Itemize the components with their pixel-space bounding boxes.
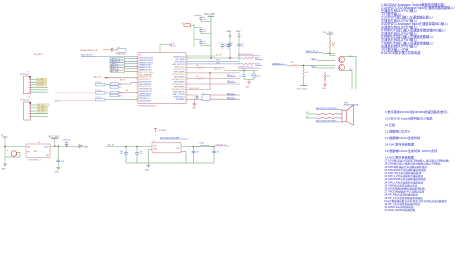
svg-text:R9: R9 <box>118 47 120 49</box>
svg-text:U3: U3 <box>153 141 155 143</box>
svg-text:C18: C18 <box>120 151 123 153</box>
text block A (pin descriptions 1-8) <box>381 2 454 55</box>
wire mic amp output <box>181 146 215 147</box>
svg-text:11 正极: 11 正极 <box>385 122 395 127</box>
svg-text:P2: P2 <box>28 97 30 99</box>
net label LINEOUT_L1 (U1 left) <box>110 58 138 61</box>
svg-text:104: 104 <box>203 43 206 45</box>
svg-text:MIC_IN: MIC_IN <box>108 144 115 146</box>
regulator U2 LP5907 box <box>26 142 50 158</box>
net label AUD_SDIN (U1 left) <box>110 70 138 73</box>
ground (supply input) <box>2 164 8 170</box>
svg-text:104: 104 <box>241 45 244 47</box>
power flag GND (right arrow) <box>79 145 88 149</box>
transistor Q2 S8050 (lower) <box>338 64 352 71</box>
svg-text:SD_MCU: SD_MCU <box>34 54 43 56</box>
capacitor C22 10uF <box>63 140 70 147</box>
resistor R12 and R13 pair <box>110 89 138 97</box>
svg-text:10K: 10K <box>332 45 335 47</box>
capacitor C8 above U1 <box>160 44 175 53</box>
inductor L1 2.2uH <box>196 142 214 146</box>
svg-text:C19: C19 <box>140 151 143 153</box>
svg-text:ESP8266EX-AUDIO: ESP8266EX-AUDIO <box>138 105 157 108</box>
svg-text:R16: R16 <box>291 62 294 64</box>
transistor Q1 S8050 (upper) <box>338 56 352 62</box>
capacitor C24 electrolytic <box>252 70 260 79</box>
capacitor C6 104 (decoupling bank) <box>194 27 211 33</box>
svg-text:1uF: 1uF <box>216 151 219 153</box>
svg-text:VCC_3V3: VCC_3V3 <box>297 88 308 90</box>
label AMP-OUTPUT- (below) <box>316 119 343 122</box>
svg-text:Y1: Y1 <box>203 93 205 95</box>
ground (below crystal) <box>192 99 196 109</box>
svg-text:SD_CLK: SD_CLK <box>38 105 45 107</box>
svg-text:GND: GND <box>227 31 232 33</box>
svg-text:J1: J1 <box>7 150 9 152</box>
capacitor C16 104 <box>225 38 232 59</box>
svg-text:C24: C24 <box>257 76 260 78</box>
svg-text:GND: GND <box>55 172 60 174</box>
svg-text:10 DBVDD Supply数字接口I/O电源: 10 DBVDD Supply数字接口I/O电源 <box>385 116 432 121</box>
wire amp output right <box>343 56 356 89</box>
svg-text:8 DCVDD数字核心供电电源: 8 DCVDD数字核心供电电源 <box>381 50 421 55</box>
wire SPK- with resistor R19 <box>306 116 341 119</box>
svg-text:R13: R13 <box>119 95 122 97</box>
svg-text:12 数据端C/芯片M: 12 数据端C/芯片M <box>385 129 411 134</box>
svg-text:LP5907MFX-3.3: LP5907MFX-3.3 <box>28 160 41 162</box>
power flag VBAT (red, top-left) <box>182 23 195 27</box>
capacitor C23 104 <box>56 146 64 167</box>
connector J1 power jack <box>7 150 21 156</box>
ground flag GND (right of pair) <box>236 31 241 38</box>
net label LINEL1_R1 <box>306 51 336 54</box>
svg-text:U1: U1 <box>139 54 141 56</box>
svg-text:104: 104 <box>173 46 176 48</box>
svg-text:R11: R11 <box>119 87 122 89</box>
ground (C23) <box>55 167 61 173</box>
net label ADMIC_N1 (U1 left) <box>110 68 138 71</box>
svg-text:R1-AUD 10K: R1-AUD 10K <box>116 53 127 56</box>
svg-text:14 DAC数字音频数据: 14 DAC数字音频数据 <box>385 141 414 146</box>
crystal Y1 with caps <box>186 93 240 100</box>
svg-text:AUD_P: AUD_P <box>120 79 125 82</box>
svg-text:C3_B: C3_B <box>216 62 220 64</box>
wire EXT_R row with resistor R6 12K <box>186 65 233 71</box>
ground (GPIO14 filter) <box>246 82 251 89</box>
power flag VCC_3V3 (amp) <box>323 32 334 40</box>
svg-text:MTSW-1-05: MTSW-1-05 <box>20 99 29 101</box>
net labels SD_DAT2/SD_DAT3/SD_CMD (P1) <box>37 78 47 87</box>
capacitor C21 1uF <box>212 146 219 163</box>
wire decoupling left rail <box>193 24 195 47</box>
svg-text:OUT: OUT <box>176 148 179 150</box>
mcu U1 left pin names <box>139 58 154 103</box>
svg-text:C13: C13 <box>218 43 221 45</box>
capacitor C17 (GPIO14 filter) <box>233 70 258 80</box>
svg-text:15 数据端C/ADC生成时钟: GPIO1支持: 15 数据端C/ADC生成时钟: GPIO1支持 <box>385 148 437 153</box>
svg-text:U0RXD/DVDD: U0RXD/DVDD <box>139 100 151 102</box>
label SPK1 speaker <box>344 102 359 106</box>
svg-text:MTSW-1-05: MTSW-1-05 <box>20 74 29 76</box>
resistor R10 and R11 pair <box>110 79 138 89</box>
power flag MICBIAS (red) <box>154 129 167 132</box>
ground (amp) <box>322 85 327 91</box>
mcu U1 ESP8266EX box <box>138 53 186 104</box>
capacitor C7 104 (decoupling bank) <box>194 39 211 45</box>
text block C (pin descriptions 17-32) <box>385 159 451 213</box>
capacitor C13 C14 (above right of U1) <box>218 42 233 49</box>
wire supply input <box>4 146 26 164</box>
red label M-AUD (faint) <box>80 49 99 52</box>
svg-text:104: 104 <box>203 31 206 33</box>
svg-text:L1 [R]: L1 [R] <box>200 142 205 144</box>
svg-text:SD_CMD: SD_CMD <box>37 85 44 87</box>
wire GPIO12 row with resistor R7 <box>186 76 240 79</box>
capacitor C11 104 (left of U1) <box>95 90 110 94</box>
svg-text:9 数字接地DCVDD和DRVDD的返回路径(数字),: 9 数字接地DCVDD和DRVDD的返回路径(数字), <box>385 109 449 114</box>
svg-text:MIC1BIAS: MIC1BIAS <box>159 129 168 132</box>
net label SPK_R1 <box>227 93 236 95</box>
capacitor C5 104 (decoupling bank) <box>194 15 211 21</box>
connector P2 MTSW-1-05 <box>20 97 48 120</box>
svg-text:C14: C14 <box>230 43 233 45</box>
power flag 5V input <box>1 135 7 147</box>
label AMP-OUTPUT+ (above) <box>316 107 343 110</box>
text block B (pin descriptions 9-16) <box>385 109 449 159</box>
svg-text:P1: P1 <box>28 72 30 74</box>
svg-text:GND: GND <box>236 31 241 33</box>
svg-text:GND: GND <box>145 169 150 171</box>
svg-text:GND: GND <box>83 146 88 148</box>
capacitor C10 104 (left of U1) <box>95 82 110 86</box>
svg-text:VOUT: VOUT <box>44 147 49 149</box>
speaker SP1 <box>340 105 354 125</box>
label BLM-MIC/GPIO14-C (upper) <box>238 54 261 56</box>
svg-text:GND: GND <box>322 88 326 90</box>
wire GPIO14 row + junction <box>186 72 240 89</box>
svg-text:104: 104 <box>120 153 123 155</box>
power flag VCC_3V3 (supply out) <box>49 136 60 147</box>
mcu U1 pin stubs <box>136 57 188 101</box>
svg-text:16 ADC数字音频数据: 16 ADC数字音频数据 <box>385 154 414 159</box>
wire ground rail (mic section) <box>126 162 214 164</box>
net label LINEOUT_R1 (U1 left) <box>110 60 138 63</box>
svg-text:R14: R14 <box>332 43 335 45</box>
svg-text:AUD_LRCLK: AUD_LRCLK <box>190 87 201 90</box>
svg-text:C23: C23 <box>61 161 64 163</box>
wire SPK+ with resistor R18 <box>306 112 341 115</box>
red label MIC_GD + wire <box>94 76 138 78</box>
net label SPK_L1 <box>227 75 236 77</box>
label LP5907MFX-3.3 (under U2) <box>28 160 41 162</box>
label BLM-MIC/GPIO14-D (lower) <box>238 67 261 69</box>
net label LINEIN_L1 (U1 left) <box>110 63 138 66</box>
svg-text:1uF: 1uF <box>196 151 199 153</box>
svg-text:5V: 5V <box>1 135 4 137</box>
power flag VCC_3V3 (bias bottom) <box>297 78 308 91</box>
svg-text:13 数据端C/DAC生成时钟: 13 数据端C/DAC生成时钟 <box>385 135 420 140</box>
svg-text:SPK1: SPK1 <box>344 102 348 104</box>
wire VOUT <box>50 146 79 147</box>
net label LINEOUT_L1 + resistor R16 <box>272 62 335 77</box>
svg-text:C3_A: C3_A <box>216 59 220 62</box>
wire CH_PD row <box>186 59 238 62</box>
svg-text:GND: GND <box>246 87 250 89</box>
capacitor C9 with reset box <box>103 47 126 56</box>
svg-text:R7: R7 <box>197 76 199 78</box>
svg-text:R17: R17 <box>306 72 309 74</box>
resistor R15 (amp emitter) <box>324 72 330 85</box>
svg-text:1uF: 1uF <box>140 153 143 155</box>
mic amp U3 box <box>152 136 189 152</box>
svg-text:M1-AUD MCLK 12K: M1-AUD MCLK 12K <box>80 49 99 52</box>
connector P1 MTSW-1-05 <box>20 72 48 94</box>
capacitor C12 104 (left of U1) <box>95 97 138 101</box>
svg-text:VCC_3V3: VCC_3V3 <box>204 13 215 16</box>
svg-text:104: 104 <box>203 19 206 21</box>
svg-text:GND: GND <box>2 168 7 170</box>
capacitor C15 104 <box>237 38 243 64</box>
svg-text:C15: C15 <box>241 43 244 45</box>
svg-text:MT_D2: MT_D2 <box>55 101 60 103</box>
svg-text:GND/EPAD: GND/EPAD <box>175 98 185 101</box>
wire GPIO13 row <box>186 83 240 85</box>
svg-text:GND: GND <box>192 108 196 110</box>
svg-text:U2: U2 <box>38 142 40 144</box>
svg-text:A2: A2 <box>126 89 128 92</box>
wire NR_4 row with resistor R4 <box>186 57 263 60</box>
capacitor C19 1uF <box>135 146 142 163</box>
svg-text:AUD-W: AUD-W <box>216 53 222 56</box>
capacitor C20 1uF <box>192 146 199 163</box>
net label SPK_R2 <box>227 98 236 100</box>
net label LINEOUT_L1 (mic out) <box>216 144 230 146</box>
net label AUD_MCLK <box>81 54 138 57</box>
svg-text:C22 10uF: C22 10uF <box>63 140 70 142</box>
net label NR_3 <box>312 66 336 68</box>
label ESP8266EX-AUDIO (under U1) <box>138 105 157 108</box>
ground flag GND (left of pair) <box>227 31 232 38</box>
capacitor C18 104 <box>120 146 128 163</box>
svg-text:R15: R15 <box>327 76 330 78</box>
svg-text:R6: R6 <box>197 65 199 67</box>
net label SPK_L2 <box>227 81 236 83</box>
net label ADMIC_P1 (U1 left) <box>110 65 138 68</box>
net labels SD_CLK/SD_DAT0/SD_DAT1 (P2) <box>37 104 49 113</box>
net label AUD_LRCLK row <box>186 87 210 90</box>
wire filter ground rail <box>244 79 254 81</box>
wire SP_B row with resistor R5 <box>186 62 263 65</box>
svg-text:C17: C17 <box>239 76 242 78</box>
resistor R14 10K (to VCC) <box>329 40 335 56</box>
wire U3 ground loop <box>149 150 187 164</box>
wire MIC rows from connector P2 <box>55 93 96 103</box>
wire MIC_IN <box>106 144 152 147</box>
power flag VCC_3V3 (top) <box>204 13 215 58</box>
red label SD_MCU <box>34 54 43 56</box>
svg-text:32 GND_PADDLE接地焊盘: 32 GND_PADDLE接地焊盘 <box>385 208 416 212</box>
svg-text:MIC_GD: MIC_GD <box>94 76 102 78</box>
svg-text:AUD_GP: AUD_GP <box>215 68 222 71</box>
mcu U1 right pin names <box>172 55 186 101</box>
wire VDD row with AUD-W label <box>186 53 222 56</box>
ground (mic amp) <box>145 163 151 171</box>
svg-text:C8: C8 <box>173 44 175 46</box>
net label NR_2 <box>312 58 336 60</box>
